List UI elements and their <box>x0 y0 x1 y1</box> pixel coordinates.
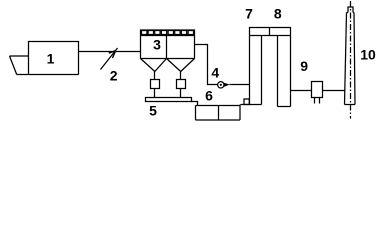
leg right to conveyor <box>180 89 182 98</box>
baghouse 3 bottom line <box>141 58 195 60</box>
header divider <box>269 28 271 36</box>
baghouse 3 cell row <box>142 31 194 35</box>
bin 6 <box>196 105 241 121</box>
wire step from conveyor to bin 6 <box>192 102 198 106</box>
fan 4 outlet cone <box>224 83 230 87</box>
svg-text:10: 10 <box>360 47 376 63</box>
hopper left of 3 <box>141 59 167 72</box>
baghouse 3 middle divider <box>166 36 168 59</box>
conveyor 5 <box>146 98 192 102</box>
stack 10 walls <box>345 13 356 105</box>
fan 4 circle <box>218 82 224 88</box>
svg-text:1: 1 <box>47 51 55 67</box>
damper 2 slash <box>101 48 118 70</box>
tower 7 bottom hopper box <box>244 99 249 105</box>
svg-text:6: 6 <box>205 88 213 104</box>
tower 8 bottom <box>278 106 291 108</box>
baghouse 3 outer shell <box>141 30 195 59</box>
svg-text:3: 3 <box>153 37 161 53</box>
svg-text:5: 5 <box>149 103 157 119</box>
fan 9 box <box>312 82 323 98</box>
svg-text:9: 9 <box>300 58 308 74</box>
wire fan 4 to tower 7 <box>230 84 250 86</box>
stack 10 bottom <box>345 104 356 106</box>
wire fan 9 to stack 10 <box>323 90 345 92</box>
svg-text:8: 8 <box>274 6 282 22</box>
box 1 (mill) <box>17 42 79 75</box>
damper 2 arrow barbs <box>109 51 116 59</box>
hopper stub left <box>154 72 156 80</box>
svg-text:7: 7 <box>245 6 253 22</box>
towers 7 8 header <box>250 28 291 36</box>
rotary valve left <box>151 80 160 89</box>
duct from 3 top to fan 4 <box>195 45 218 85</box>
rotary valve right <box>177 80 186 89</box>
baghouse 3 top bar bottom line <box>141 35 195 37</box>
svg-text:2: 2 <box>110 68 118 84</box>
svg-text:4: 4 <box>211 65 219 81</box>
stack 10 tip <box>348 7 353 13</box>
stack 10 centerline <box>350 1 352 119</box>
tower 7 walls <box>250 36 262 105</box>
hopper stub right <box>180 72 182 80</box>
stack 10 shoulders <box>347 12 355 14</box>
tower 7 bottom <box>241 104 262 106</box>
wire duct from 1 to 3 <box>79 51 141 53</box>
leg left to conveyor <box>154 89 156 98</box>
wire tower 8 to fan 9 <box>291 90 312 92</box>
fan 9 legs <box>315 98 320 104</box>
hopper right of 3 <box>167 59 195 72</box>
feeder chute trapezoid at unit 1 <box>10 55 29 57</box>
bin 6 divider <box>218 106 220 121</box>
tower 8 walls <box>278 36 291 107</box>
